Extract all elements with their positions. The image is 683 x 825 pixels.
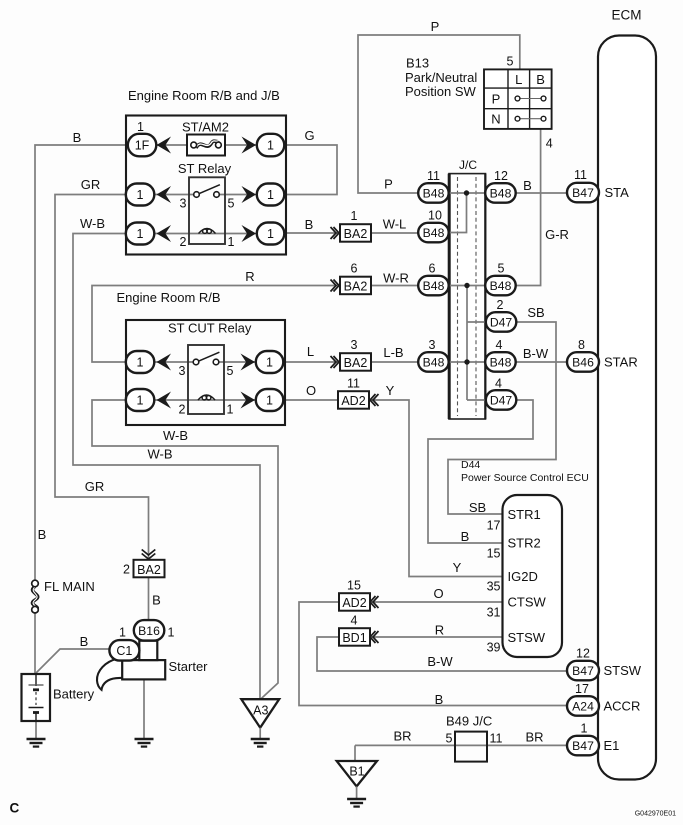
connector 1 (ST CUT coil in) [126,389,155,411]
svg-text:Power Source Control ECU: Power Source Control ECU [461,472,589,484]
svg-text:C: C [10,801,20,816]
svg-text:BR: BR [393,729,411,744]
svg-text:Y: Y [386,383,395,398]
svg-text:B46: B46 [572,356,594,370]
wire B (B48 pin 12 to ECM STA) [516,192,568,194]
svg-text:6: 6 [429,262,436,276]
svg-text:B47: B47 [572,739,594,753]
starter solenoid neck [139,641,157,660]
connector arrow [157,392,172,409]
svg-text:B48: B48 [423,356,445,370]
connector BA2 pin 2 [134,560,165,578]
svg-text:SB: SB [469,500,486,515]
connector arrow [242,186,257,203]
wire BR (B1 ground to B49 J/C to ECM E1) [355,744,568,746]
svg-text:ST Relay: ST Relay [178,161,232,176]
svg-text:AD2: AD2 [341,394,365,408]
svg-text:BA2: BA2 [344,356,368,370]
svg-text:2: 2 [179,403,186,417]
svg-text:1: 1 [267,188,274,202]
connector B48 pin 3 [418,352,449,372]
svg-text:W-L: W-L [383,217,407,232]
svg-text:B48: B48 [423,187,445,201]
svg-text:B: B [305,217,314,232]
svg-text:G-R: G-R [545,227,569,242]
svg-text:B1: B1 [349,765,364,779]
wire through J/C row 6-5 [448,285,486,287]
wire L-B (BA2 to B48 pin 3) [371,361,419,363]
svg-text:P: P [492,91,501,106]
connector D47 pin 4 [486,390,517,410]
wire G-R (park/neutral position switch pin 4 to B48 pin 5) [516,129,541,286]
svg-text:3: 3 [179,364,186,378]
svg-text:B48: B48 [490,187,512,201]
svg-text:B-W: B-W [427,654,453,669]
connector C1 [109,640,139,661]
connector 1 (ST CUT in) [126,351,155,373]
wire O (D44 CTSW to AD2 pin 15) [370,601,503,603]
svg-text:1: 1 [267,227,274,241]
ground triangle B1 [337,761,377,786]
connector B48 pin 5 [485,276,516,296]
A3 ground symbol [259,728,261,739]
junction node row 11-12 [464,190,469,195]
svg-text:1: 1 [119,626,126,640]
svg-text:3: 3 [429,338,436,352]
svg-text:ECM: ECM [612,8,642,23]
svg-text:3: 3 [180,197,187,211]
svg-text:A3: A3 [253,704,268,718]
svg-text:B: B [38,527,47,542]
connector arrow [157,225,172,242]
svg-text:FL MAIN: FL MAIN [44,579,95,594]
svg-text:G: G [304,128,314,143]
connector A24 pin 17 ACCR [567,696,599,716]
wire G (ST/AM2 to ST relay) [286,145,337,195]
connector B48 pin 11 [418,183,449,203]
ST CUT relay coil pins 2-1 [198,395,215,400]
connector arrow [157,354,172,371]
svg-text:B47: B47 [572,186,594,200]
svg-text:31: 31 [487,606,501,620]
connector 1 (ST relay in) [126,184,155,206]
svg-text:1: 1 [266,394,273,408]
wire B (battery to starter C1) [36,649,110,673]
connector BA2 pin 6 [340,277,371,295]
wire W-B (ST CUT relay coil to A3 ground) [92,400,278,699]
connector B48 pin 12 [485,183,516,203]
connector AD2 pin 11 [338,391,369,409]
internal wire ST/AM2 fuse row [126,144,257,146]
svg-text:3: 3 [351,338,358,352]
svg-text:B: B [536,72,545,87]
svg-text:2: 2 [180,235,187,249]
connector 1 (ST relay out) [257,184,285,206]
svg-text:11: 11 [574,168,587,182]
internal wire ST CUT relay switch row [126,361,284,363]
svg-text:B: B [73,130,82,145]
svg-text:L-B: L-B [383,345,403,360]
svg-text:Engine Room R/B and J/B: Engine Room R/B and J/B [128,88,280,103]
svg-text:A24: A24 [572,700,594,714]
battery ground [27,738,46,741]
svg-text:B: B [523,178,532,193]
svg-text:4: 4 [546,137,553,151]
connector B16 [134,620,165,641]
svg-text:BR: BR [525,730,543,745]
connector 1 (coil out) [257,223,285,245]
svg-text:B: B [152,593,161,608]
svg-text:12: 12 [494,169,508,183]
connector arrow [157,186,172,203]
ground triangle A3 [241,699,279,728]
connector AD2 pin 15 [339,593,370,611]
wire W-L (BA2 to B48 pin 10) [371,232,419,234]
starter body [122,660,165,679]
svg-text:W-B: W-B [147,447,172,462]
svg-text:4: 4 [496,338,503,352]
svg-text:12: 12 [576,647,590,661]
svg-text:6: 6 [351,262,358,276]
fuse ST/AM2 [187,135,225,156]
svg-text:Starter: Starter [169,659,209,674]
svg-text:17: 17 [487,519,501,533]
ST CUT relay switch contacts pins 3-5 [198,359,214,366]
svg-text:11: 11 [490,732,503,746]
connector arrow [242,137,257,154]
svg-text:B16: B16 [138,624,160,638]
relay ST CUT Relay box [188,345,224,414]
svg-text:1: 1 [137,394,144,408]
svg-text:P: P [431,19,440,34]
svg-text:R: R [245,269,254,284]
svg-text:35: 35 [487,580,501,594]
wire through J/C row 3-4 [448,361,486,363]
svg-text:10: 10 [428,209,442,223]
svg-text:STA: STA [605,185,630,200]
wire P (B48 pin 11 to park/neutral position switch pin 5) [358,35,520,193]
svg-text:B48: B48 [423,279,445,293]
connector 1 (coil in) [126,223,155,245]
internal wire ST relay switch row [126,194,284,196]
contact row P [518,98,543,100]
svg-text:39: 39 [487,641,501,655]
svg-text:1: 1 [227,403,234,417]
connector 1 (ST/AM2 out) [257,134,285,157]
svg-text:5: 5 [446,732,453,746]
wire B-W (BD1 pin 4 to ECM STSW) [317,637,568,671]
wire L (ST CUT relay to BA2 pin 3) [284,361,340,363]
svg-text:GR: GR [81,177,101,192]
J/C internal link D47 pins 2 and 4 [466,286,468,401]
svg-text:Y: Y [453,560,462,575]
svg-text:1: 1 [228,235,235,249]
svg-text:Position SW: Position SW [405,84,477,99]
connector BA2 pin 1 [340,224,371,242]
contact row N [518,118,543,120]
wire B-W (B48 pin 4 to ECM STAR) [516,361,568,363]
wire O (ST CUT relay coil to AD2 pin 11) [284,399,338,401]
svg-text:B47: B47 [572,664,594,678]
svg-text:1: 1 [137,188,144,202]
svg-text:O: O [306,383,316,398]
svg-text:BA2: BA2 [344,280,368,294]
svg-text:1: 1 [137,356,144,370]
Engine Room R/B and J/B block [126,116,286,255]
connector B47 pin 1 E1 [567,736,599,756]
wire B battery feed (1F to FL MAIN to battery) [35,145,126,581]
ST relay switch contacts pins 3-5 [199,191,215,198]
svg-text:C1: C1 [116,644,132,658]
wire B (AD2 pin 15 to ECM ACCR) [299,602,568,706]
svg-text:W-R: W-R [383,271,409,286]
junction connector J/C block [449,174,486,419]
wire W-B (relay coil ground to A3) [73,234,260,700]
wire GR (ST relay to BA2 pin 2) [55,195,149,561]
svg-text:11: 11 [347,377,360,391]
svg-text:1: 1 [137,120,144,134]
wire starter ground [143,679,145,739]
connector arrow [157,137,172,154]
svg-text:GR: GR [85,479,105,494]
svg-text:P: P [384,177,393,192]
svg-text:W-B: W-B [80,216,105,231]
connector 1F [128,134,157,157]
wire B (ST relay to BA2 pin 1) [284,232,340,234]
svg-text:B-W: B-W [523,346,549,361]
connector B48 pin 4 [485,352,516,372]
svg-text:4: 4 [495,377,502,391]
svg-text:D47: D47 [490,394,513,408]
svg-text:B: B [80,634,89,649]
wire W-R (BA2 to B48 pin 6) [371,285,419,287]
svg-text:5: 5 [228,197,235,211]
Engine Room R/B block [126,320,285,425]
svg-text:Battery: Battery [53,687,95,702]
svg-text:Engine Room R/B: Engine Room R/B [117,290,221,305]
svg-text:IG2D: IG2D [508,569,538,584]
connector B48 pin 10 [418,223,449,243]
svg-text:ST/AM2: ST/AM2 [182,120,229,135]
svg-text:BA2: BA2 [344,227,368,241]
svg-text:CTSW: CTSW [508,595,547,610]
svg-text:1: 1 [137,227,144,241]
wire R (ST CUT relay to BA2 pin 6) [92,286,340,363]
internal wire ST relay coil row [126,233,284,235]
starter ground [135,738,154,741]
svg-text:Park/Neutral: Park/Neutral [405,70,477,85]
svg-text:2: 2 [497,298,504,312]
svg-text:B: B [435,692,444,707]
wire R (D44 STSW to BD1 pin 4) [370,636,503,638]
connector arrow [241,354,256,371]
svg-text:B49 J/C: B49 J/C [446,714,492,729]
svg-text:4: 4 [351,614,358,628]
connector BD1 pin 4 [339,628,370,646]
svg-text:AD2: AD2 [342,596,366,610]
svg-text:D44: D44 [461,459,480,471]
internal wire ST CUT relay coil row [126,399,284,401]
connector D47 pin 2 [486,312,517,332]
svg-text:1: 1 [267,139,274,153]
svg-text:15: 15 [487,547,501,561]
svg-text:17: 17 [575,682,589,696]
park/neutral position switch B13 [484,69,552,128]
svg-text:5: 5 [498,262,505,276]
svg-text:B48: B48 [423,226,445,240]
svg-text:W-B: W-B [163,428,188,443]
svg-text:BD1: BD1 [342,631,366,645]
ECM module body [598,36,656,780]
wire B (BA2 pin 2 to starter B16) [148,577,150,620]
svg-text:2: 2 [123,563,130,577]
junction node row 3-4 [464,359,469,364]
module D44 Power Source Control ECU [503,495,563,657]
svg-text:O: O [433,586,443,601]
svg-text:8: 8 [578,338,585,352]
svg-text:15: 15 [347,579,361,593]
wire battery ground [35,721,37,739]
connector 1 (ST CUT coil out) [256,389,283,411]
svg-text:B48: B48 [490,356,512,370]
svg-text:BA2: BA2 [137,563,161,577]
J/C internal link B48 pin 10 [449,193,467,233]
svg-text:STAR: STAR [604,355,638,370]
svg-text:B: B [461,529,470,544]
junction connector B49 J/C [455,732,487,762]
svg-text:J/C: J/C [459,158,477,172]
svg-text:1F: 1F [135,139,150,153]
connector arrow [241,392,256,409]
svg-text:G042970E01: G042970E01 [635,811,676,818]
svg-text:L: L [307,344,314,359]
svg-text:STSW: STSW [604,663,642,678]
connector BA2 pin 3 [340,353,371,371]
svg-text:11: 11 [427,169,440,183]
fusible link FL MAIN [29,587,42,608]
svg-text:SB: SB [527,305,544,320]
svg-text:L: L [515,72,522,87]
svg-text:1: 1 [168,626,175,640]
svg-text:N: N [491,112,500,127]
connector B47 pin 11 STA [567,183,599,203]
svg-text:STR2: STR2 [508,536,541,551]
svg-text:STSW: STSW [508,630,546,645]
svg-text:5: 5 [507,55,514,69]
ST relay coil pins 2-1 [199,229,216,234]
starter motor drawing [97,659,123,690]
wire SB (D47 pin 2 to D44 STR1) [448,322,556,514]
B1 ground symbol [356,786,358,799]
svg-text:STR1: STR1 [508,507,541,522]
svg-text:ST CUT Relay: ST CUT Relay [168,321,252,336]
connector 1 (ST CUT out) [256,351,283,373]
relay ST Relay box [189,177,225,244]
connector arrow [242,225,257,242]
svg-text:5: 5 [227,364,234,378]
svg-text:1: 1 [266,356,273,370]
svg-text:D47: D47 [490,316,513,330]
wire Y (AD2 pin 11 to D44 IG2D) [370,400,503,577]
wire B (D47 pin 4 to D44 STR2) [428,400,533,543]
svg-text:E1: E1 [604,738,620,753]
connector B48 pin 6 [418,276,449,296]
svg-text:B48: B48 [490,279,512,293]
connector B46 pin 8 STAR [567,352,599,372]
junction node row 6-5 [464,283,469,288]
wire through J/C row 11-12 [448,192,486,194]
svg-text:R: R [435,623,444,638]
svg-text:B13: B13 [406,56,429,71]
svg-text:ACCR: ACCR [604,699,641,714]
svg-text:1: 1 [351,209,358,223]
connector B47 pin 12 STSW [567,661,599,681]
svg-text:1: 1 [581,722,588,736]
battery [22,674,51,721]
